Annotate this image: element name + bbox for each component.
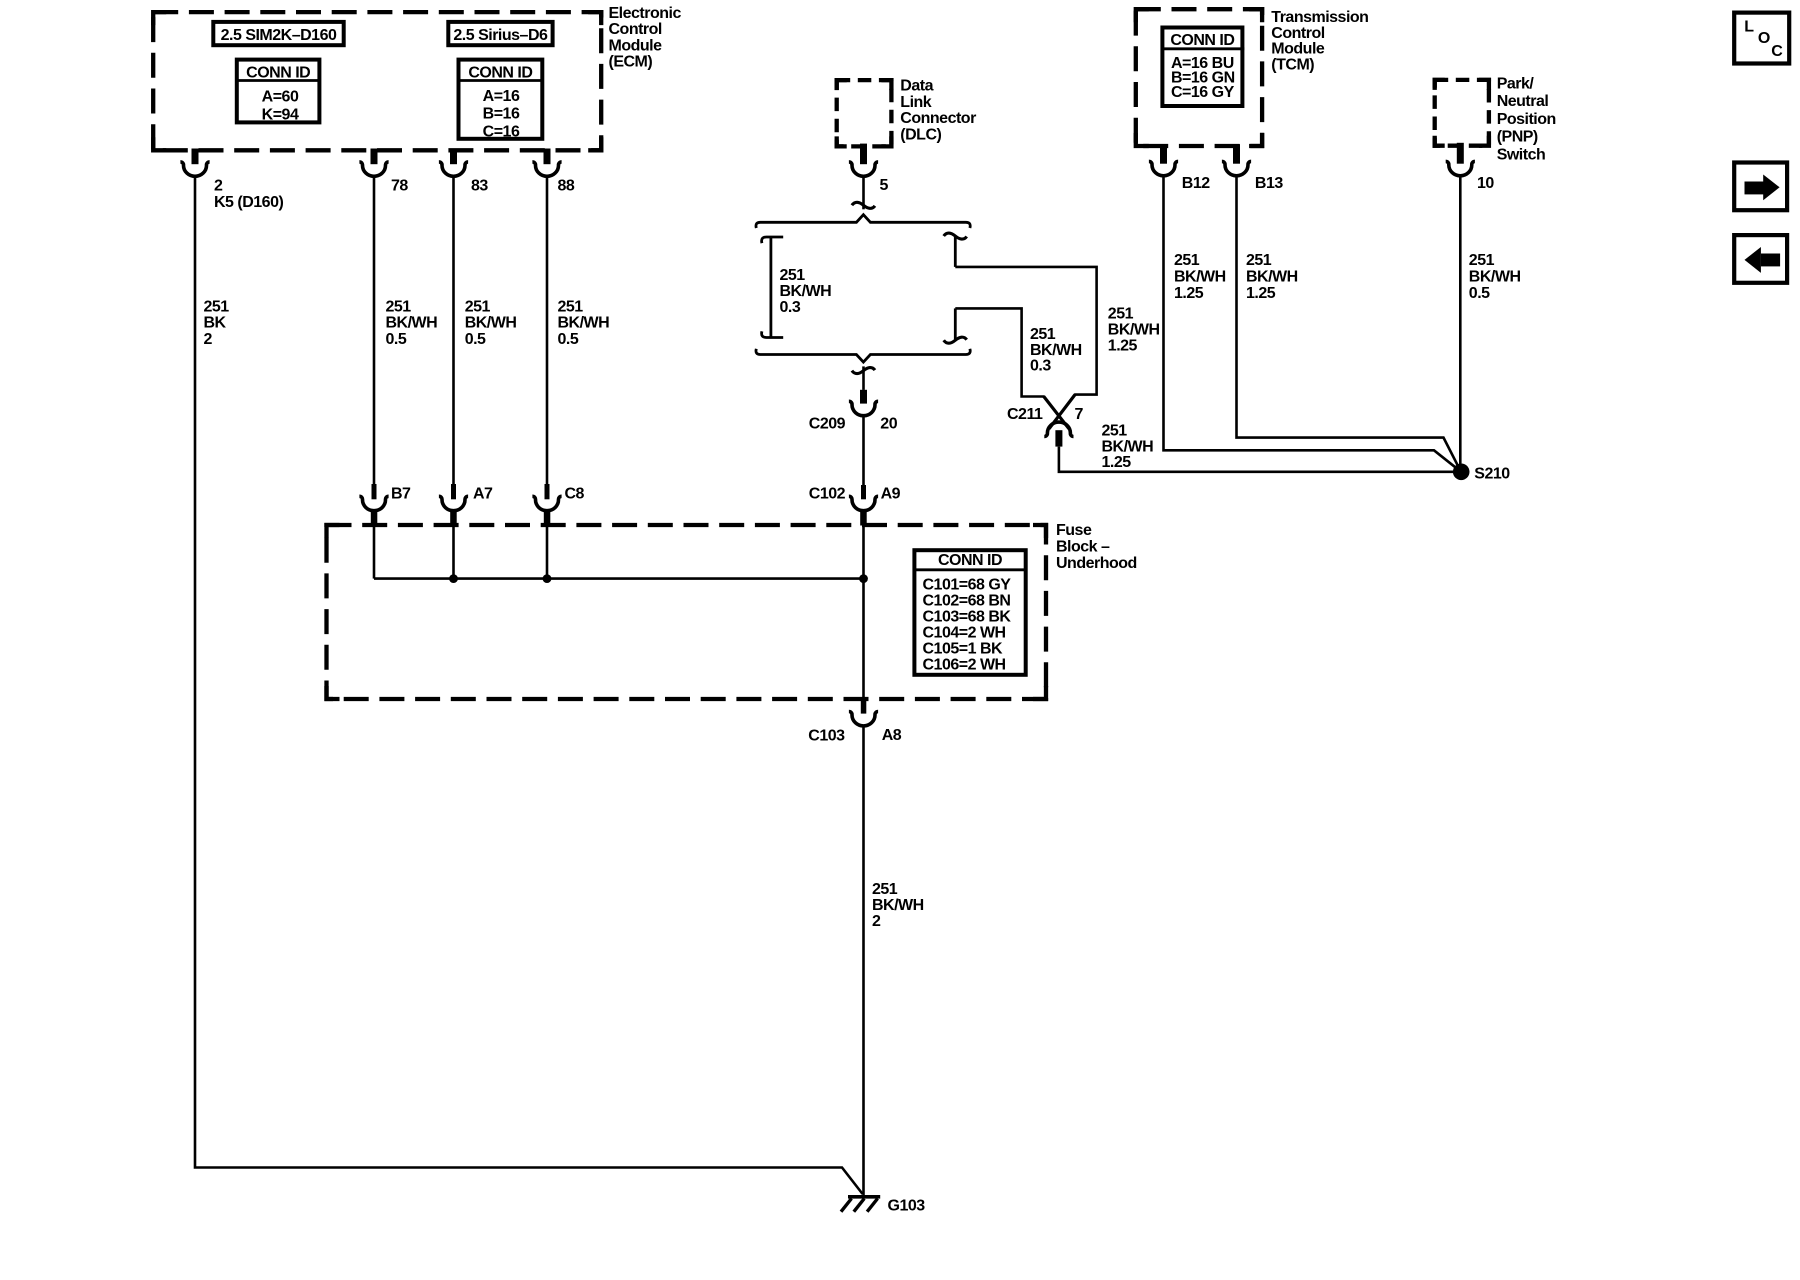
svg-text:A7: A7 — [473, 485, 493, 502]
svg-text:251: 251 — [1030, 326, 1056, 343]
TCM pin B12 connector — [1160, 144, 1167, 164]
connector C209 pin 20 — [860, 390, 867, 404]
C211 crossing wires (X) — [1044, 395, 1075, 429]
svg-text:Module: Module — [1271, 41, 1325, 58]
svg-text:BK/WH: BK/WH — [1246, 269, 1298, 286]
svg-text:0.5: 0.5 — [1469, 285, 1490, 302]
svg-text:L: L — [1744, 19, 1754, 36]
svg-text:251: 251 — [386, 299, 412, 316]
svg-text:C106=2 WH: C106=2 WH — [923, 656, 1006, 673]
svg-text:CONN ID: CONN ID — [468, 64, 532, 81]
svg-text:BK/WH: BK/WH — [872, 897, 924, 914]
svg-text:0.5: 0.5 — [465, 331, 486, 348]
fuse block CONN ID table — [914, 550, 1025, 675]
svg-text:C=16 GY: C=16 GY — [1171, 84, 1235, 101]
wire 251 BK/WH 0.5 from ECM pin 88 — [546, 177, 549, 484]
svg-text:Connector: Connector — [900, 110, 976, 127]
svg-text:2: 2 — [872, 913, 881, 930]
svg-text:C104=2 WH: C104=2 WH — [923, 624, 1006, 641]
svg-text:251: 251 — [465, 299, 491, 316]
svg-text:251: 251 — [872, 881, 898, 898]
wire B13 to S210 — [1237, 177, 1462, 472]
splice S210 — [1453, 464, 1470, 481]
svg-text:C101=68 GY: C101=68 GY — [923, 576, 1012, 593]
svg-text:10: 10 — [1477, 175, 1494, 192]
svg-text:O: O — [1758, 30, 1770, 47]
wire C8 inside fuse block — [546, 526, 549, 579]
svg-text:251: 251 — [558, 299, 584, 316]
svg-text:0.5: 0.5 — [386, 331, 407, 348]
svg-text:(PNP): (PNP) — [1497, 129, 1538, 146]
svg-text:G103: G103 — [888, 1198, 926, 1215]
splice brace (top) — [756, 215, 970, 228]
svg-text:BK/WH: BK/WH — [386, 315, 438, 332]
svg-text:BK/WH: BK/WH — [1030, 342, 1082, 359]
svg-text:BK/WH: BK/WH — [1108, 321, 1160, 338]
svg-text:Link: Link — [900, 94, 931, 111]
svg-text:Block –: Block – — [1056, 539, 1110, 556]
wire upper branch to C211 (crosses right) — [955, 267, 1096, 429]
wire end wing (top) — [852, 202, 875, 208]
svg-text:C=16: C=16 — [483, 123, 520, 140]
svg-text:Control: Control — [1271, 25, 1324, 42]
svg-text:0.3: 0.3 — [780, 299, 801, 316]
DLC pin 5 connector — [860, 144, 867, 165]
branch hook (upper) — [944, 233, 967, 239]
svg-text:C102: C102 — [809, 485, 846, 502]
svg-text:CONN ID: CONN ID — [1170, 32, 1234, 49]
svg-text:BK/WH: BK/WH — [558, 315, 610, 332]
svg-text:7: 7 — [1075, 406, 1084, 423]
svg-text:20: 20 — [880, 415, 897, 432]
wire 251 BK/WH 0.5 from ECM pin 78 — [373, 177, 376, 484]
svg-text:Electronic: Electronic — [609, 5, 682, 22]
splice brace (bottom) — [756, 349, 970, 362]
svg-text:A8: A8 — [882, 727, 902, 744]
svg-text:B12: B12 — [1182, 175, 1210, 192]
svg-text:0.3: 0.3 — [1030, 358, 1051, 375]
ECM connector name box 2.5 SIM2K-D160 — [213, 22, 343, 45]
ECM pin 83 connector — [450, 149, 457, 165]
svg-text:5: 5 — [880, 177, 889, 194]
ground bus inside fuse block — [374, 577, 864, 580]
svg-text:1.25: 1.25 — [1102, 454, 1132, 471]
svg-text:Underhood: Underhood — [1056, 555, 1137, 572]
junction dot C8 bus — [543, 574, 552, 583]
svg-text:C105=1 BK: C105=1 BK — [923, 640, 1003, 657]
junction dot A7 bus — [449, 574, 458, 583]
svg-text:2: 2 — [214, 177, 223, 194]
svg-text:S210: S210 — [1474, 465, 1510, 482]
fuse block box (dashed) — [327, 525, 1047, 699]
svg-text:(ECM): (ECM) — [609, 54, 653, 71]
svg-text:83: 83 — [471, 177, 488, 194]
ECM connector name box 2.5 Sirius-D6 — [448, 22, 552, 45]
wire A7 inside fuse block — [452, 526, 455, 579]
svg-text:K5 (D160): K5 (D160) — [214, 194, 283, 211]
wire B12 to S210 — [1164, 177, 1462, 472]
svg-text:(DLC): (DLC) — [900, 127, 941, 144]
svg-text:CONN ID: CONN ID — [246, 64, 310, 81]
junction dot main bus — [859, 574, 868, 583]
DLC box (dashed) — [837, 80, 892, 146]
wire PNP 10 to S210 — [1459, 177, 1462, 466]
svg-text:B=16: B=16 — [483, 106, 520, 123]
svg-text:Data: Data — [900, 77, 933, 94]
wire C102 to C103 inside fuse block — [862, 523, 865, 698]
svg-text:1.25: 1.25 — [1108, 337, 1138, 354]
wire C103 to ground G103 — [862, 727, 865, 1195]
svg-text:0.5: 0.5 — [558, 331, 579, 348]
svg-text:B7: B7 — [391, 485, 411, 502]
nav arrow box (forward) — [1734, 163, 1787, 211]
svg-text:Park/: Park/ — [1497, 75, 1535, 92]
svg-text:2: 2 — [204, 331, 213, 348]
branch hook (lower) — [944, 337, 967, 343]
wire brace bottom to C209 — [852, 368, 875, 374]
connector B7 at fuse block — [372, 484, 377, 499]
svg-text:BK: BK — [204, 315, 227, 332]
svg-text:Module: Module — [609, 37, 663, 54]
ECM CONN ID table (SIM2K) — [237, 60, 320, 123]
svg-text:251: 251 — [204, 299, 230, 316]
svg-text:251: 251 — [1246, 252, 1272, 269]
svg-text:BK/WH: BK/WH — [780, 283, 832, 300]
svg-text:2.5 Sirius–D6: 2.5 Sirius–D6 — [453, 27, 548, 44]
svg-text:251: 251 — [1469, 252, 1495, 269]
svg-text:Transmission: Transmission — [1271, 9, 1368, 26]
svg-text:251: 251 — [780, 267, 806, 284]
svg-text:BK/WH: BK/WH — [1174, 269, 1226, 286]
svg-text:K=94: K=94 — [262, 106, 299, 123]
svg-text:(TCM): (TCM) — [1271, 56, 1314, 73]
connector C8 at fuse block — [545, 484, 550, 499]
svg-text:C102=68 BN: C102=68 BN — [923, 592, 1011, 609]
connector A7 at fuse block — [451, 484, 456, 499]
nav arrow box (back) — [1734, 235, 1787, 283]
svg-text:Neutral: Neutral — [1497, 93, 1549, 110]
svg-text:C209: C209 — [809, 416, 846, 433]
ECM pin 2 connector — [192, 149, 199, 165]
ECM CONN ID table (Sirius) — [459, 60, 543, 139]
connector C103 pin A8 — [861, 698, 867, 714]
connector C102 pin A9 — [861, 485, 866, 499]
svg-text:C: C — [1771, 43, 1783, 60]
svg-text:251: 251 — [1108, 306, 1134, 323]
svg-text:A9: A9 — [881, 485, 901, 502]
svg-text:Fuse: Fuse — [1056, 522, 1092, 539]
svg-text:BK/WH: BK/WH — [1469, 269, 1521, 286]
svg-text:Control: Control — [609, 21, 662, 38]
PNP pin 10 connector — [1457, 143, 1464, 164]
ECM pin 78 connector — [371, 149, 378, 165]
svg-text:78: 78 — [391, 177, 408, 194]
wire C209 to C102 — [862, 417, 865, 485]
svg-text:A=60: A=60 — [262, 88, 299, 105]
svg-text:B13: B13 — [1255, 175, 1283, 192]
svg-text:2.5 SIM2K–D160: 2.5 SIM2K–D160 — [221, 27, 337, 44]
ground symbol G103 — [848, 1195, 880, 1199]
svg-text:BK/WH: BK/WH — [465, 315, 517, 332]
connector C211 pin 7 — [1044, 422, 1073, 436]
svg-text:1.25: 1.25 — [1246, 285, 1276, 302]
svg-text:C103: C103 — [808, 727, 845, 744]
TCM module box (dashed) — [1136, 9, 1262, 146]
svg-text:A=16: A=16 — [483, 88, 520, 105]
wire 251 BK 2 from ECM pin 2 to ground run — [195, 177, 863, 1194]
wire lower branch to C211 (crosses left) — [955, 308, 1069, 428]
svg-text:88: 88 — [558, 177, 575, 194]
svg-text:CONN ID: CONN ID — [938, 552, 1002, 569]
svg-text:Switch: Switch — [1497, 147, 1546, 164]
circuit span line — [762, 237, 784, 243]
svg-text:C8: C8 — [565, 485, 585, 502]
svg-text:251: 251 — [1174, 252, 1200, 269]
wire DLC pin 5 down to splice brace — [862, 177, 865, 209]
PNP switch box (dashed) — [1435, 80, 1489, 146]
LOC icon box — [1734, 13, 1789, 64]
ECM pin 88 connector — [544, 149, 551, 165]
wire B7 inside fuse block — [373, 526, 376, 579]
ECM module box (dashed) — [153, 12, 601, 150]
svg-text:C211: C211 — [1007, 406, 1043, 423]
wire 251 BK/WH 0.5 from ECM pin 83 — [452, 177, 455, 484]
TCM pin B13 connector — [1233, 144, 1240, 164]
svg-text:251: 251 — [1102, 423, 1128, 440]
TCM CONN ID table — [1162, 28, 1242, 107]
svg-text:1.25: 1.25 — [1174, 285, 1204, 302]
svg-text:Position: Position — [1497, 111, 1556, 128]
wire C211 to S210 — [1059, 447, 1457, 472]
svg-text:C103=68 BK: C103=68 BK — [923, 608, 1012, 625]
svg-text:BK/WH: BK/WH — [1102, 438, 1154, 455]
